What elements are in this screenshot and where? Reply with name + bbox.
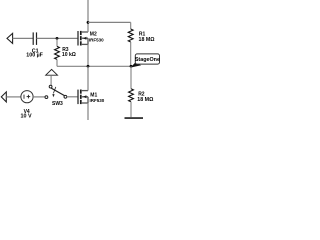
input port connector (top left) (7, 33, 13, 43)
svg-text:IRF530: IRF530 (89, 38, 104, 43)
svg-text:100 µF: 100 µF (26, 53, 43, 59)
wire port to V4 (6, 96, 20, 98)
svg-text:M2: M2 (90, 32, 97, 38)
node junction drain/top wire (87, 21, 90, 24)
resistor R1 (128, 22, 155, 66)
svg-text:StageOne: StageOne (135, 57, 160, 63)
on-page connector arrow (46, 69, 58, 85)
wire M2 drain up (87, 0, 89, 32)
node junction C1/R3/gate (56, 37, 59, 40)
svg-text:10 V: 10 V (21, 113, 32, 119)
wire M1 source down (87, 103, 89, 120)
svg-text:IRF530: IRF530 (90, 98, 105, 103)
svg-text:18 MΩ: 18 MΩ (137, 97, 154, 103)
transistor M2 (78, 31, 104, 46)
input port connector (bottom left) (1, 92, 6, 102)
wire M2 source down (87, 44, 89, 66)
resistor R2 (129, 66, 154, 117)
net label StageOne (130, 54, 160, 68)
voltage source V4 (21, 91, 34, 120)
capacitor C1 (26, 32, 43, 58)
wire port to C1 (13, 37, 33, 39)
wire M1 drain up to bus (87, 66, 89, 90)
ground (125, 117, 144, 119)
wire V4 to switch (33, 96, 45, 98)
wire C1 to M2 gate (37, 37, 78, 39)
node junction R1/R2/bus (130, 65, 133, 68)
svg-text:SW3: SW3 (52, 101, 63, 107)
svg-text:18 MΩ: 18 MΩ (139, 37, 156, 43)
switch SW3 (45, 85, 67, 107)
svg-text:10 kΩ: 10 kΩ (62, 52, 76, 58)
wire bus StageOne net (57, 65, 131, 67)
wire switch to M1 gate (67, 96, 78, 98)
transistor M1 (78, 90, 105, 105)
wire top to R1 (88, 21, 131, 23)
node junction bus/M2/M1 (87, 65, 90, 68)
resistor R3 (55, 38, 76, 66)
